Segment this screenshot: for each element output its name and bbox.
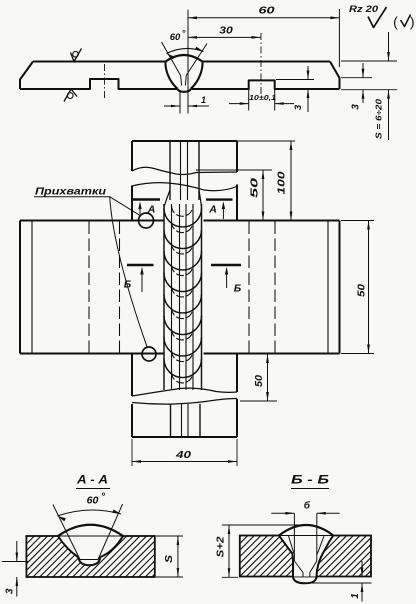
- section mark A-A left: [133, 200, 160, 216]
- weld bead (cross-section with cap and root): [165, 55, 202, 92]
- tack weld circle lower: [142, 347, 156, 361]
- section B-B groove lines for dim b: [289, 514, 325, 577]
- dimension 3 (edge land): [341, 63, 397, 110]
- svg-text:30: 30: [219, 26, 233, 37]
- svg-text:60: 60: [170, 32, 181, 43]
- (check) symbol in parentheses: [393, 14, 414, 30]
- section B-B block with hatching: [194, 536, 413, 577]
- dimension 50 (plate width, right): [341, 221, 374, 354]
- svg-text:3: 3: [293, 104, 304, 110]
- svg-text:б: б: [304, 500, 311, 512]
- svg-text:°: °: [101, 491, 106, 503]
- svg-text:S+2: S+2: [216, 536, 227, 558]
- svg-text:60: 60: [259, 6, 276, 17]
- dimension 10+-0.1 (recess width): [229, 82, 294, 111]
- svg-text:50: 50: [250, 177, 261, 198]
- svg-text:(: (: [393, 14, 398, 30]
- groove V edge lines (60 deg): [162, 42, 208, 86]
- section A-A groove V lines: [53, 504, 123, 560]
- tack weld circle upper: [139, 213, 154, 228]
- svg-text:3: 3: [350, 104, 361, 110]
- section B-B weld zone: [279, 525, 333, 583]
- svg-text:S = 6÷20: S = 6÷20: [374, 99, 384, 139]
- svg-text:Rz 20: Rz 20: [349, 4, 379, 15]
- section mark A-A right: [206, 200, 233, 219]
- dimension 40 (tab width): [132, 439, 237, 466]
- section B-B dimension S+2: [216, 525, 306, 577]
- section B-B title: [291, 475, 329, 489]
- surface finish symbol (top surface): [71, 49, 82, 62]
- svg-text:S: S: [163, 555, 175, 563]
- lower run-off tab outline: [132, 354, 237, 437]
- weld seam lines in upper tab: [170, 141, 199, 200]
- centerline recess 2 / extension for 30: [260, 33, 262, 95]
- upper run-off tab outline: [132, 141, 237, 221]
- svg-text:3: 3: [5, 588, 16, 594]
- dimension 3 (recess depth): [276, 66, 314, 112]
- surface finish symbol (bottom surface): [64, 89, 77, 102]
- section A-A block with hatching: [0, 536, 193, 577]
- dimension 50 (lower tab): [240, 354, 277, 401]
- svg-text:1: 1: [350, 593, 361, 599]
- svg-text:50: 50: [254, 375, 265, 387]
- weld scale texture arcs: [164, 206, 202, 383]
- weld seam lines in lower tab: [171, 404, 201, 437]
- section mark B-B right: [211, 265, 242, 295]
- section A-A dimension S: [156, 536, 183, 577]
- svg-text:Прихватки: Прихватки: [35, 187, 106, 198]
- section A-A 60deg dimension: [58, 491, 122, 522]
- section mark B-B left: [124, 265, 154, 292]
- section view: welded plate cross-section (top view): [20, 62, 340, 90]
- svg-text:): ): [410, 14, 415, 30]
- section B-B dimension b (root width): [271, 500, 339, 515]
- dimension 60deg groove angle with arc: [167, 28, 204, 59]
- svg-text:1: 1: [201, 95, 206, 105]
- weld reference line (extension): [187, 10, 189, 114]
- main plates outline (plan view): [20, 221, 340, 354]
- section A-A title: [76, 475, 110, 489]
- break line upper tab (wavy): [132, 167, 237, 191]
- svg-text:10±0,1: 10±0,1: [249, 93, 276, 102]
- dimension 30: [188, 26, 261, 39]
- weld seam longitudinal lines (plate region): [164, 190, 202, 390]
- label Prikhvatki (tack welds) with leaders: [34, 187, 147, 348]
- dimension 60 (weld to plate edge): [188, 6, 339, 68]
- svg-text:А: А: [208, 204, 217, 216]
- section A-A dimension 3 (root): [2, 541, 28, 597]
- centerline recess 1: [104, 64, 106, 99]
- svg-text:100: 100: [277, 171, 288, 195]
- section B-B dimension 1 (penetration): [306, 561, 372, 602]
- svg-text:40: 40: [175, 449, 191, 461]
- section A-A weld pocket: [58, 525, 123, 566]
- roughness Rz 20 with check symbol: [349, 4, 387, 28]
- svg-text:50: 50: [357, 283, 368, 297]
- svg-text:°: °: [182, 28, 186, 39]
- dimension 50 (upper tab beyond plate): [196, 170, 272, 221]
- dimension 1 (root gap): [164, 95, 209, 107]
- hidden lines of recesses (dashed): [89, 222, 275, 353]
- svg-text:Б: Б: [234, 283, 242, 295]
- svg-text:А - А: А - А: [76, 475, 108, 487]
- svg-text:Б - Б: Б - Б: [291, 475, 329, 487]
- svg-text:60: 60: [87, 495, 99, 507]
- dimension 100 (tab length): [237, 141, 295, 221]
- break line lower tab (wavy): [132, 388, 237, 404]
- root gap extension line: [179, 90, 181, 114]
- dimension S=6-20 (plate thickness): [341, 32, 397, 140]
